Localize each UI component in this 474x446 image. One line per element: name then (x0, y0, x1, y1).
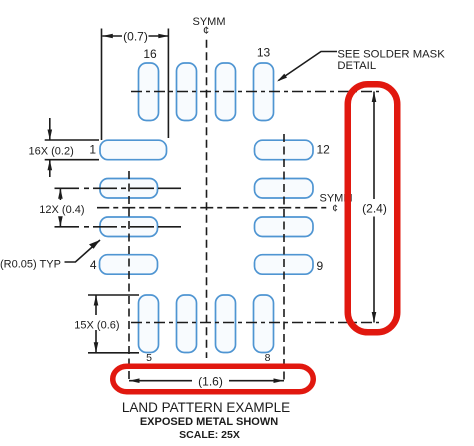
svg-text:(1.6): (1.6) (198, 375, 223, 389)
pad 13 (254, 63, 274, 121)
svg-text:DETAIL: DETAIL (337, 60, 376, 72)
arrowhead 12X(0.4) down (58, 216, 63, 227)
arrowhead solder mask leader (277, 74, 287, 82)
svg-text:SEE SOLDER MASK: SEE SOLDER MASK (337, 49, 445, 61)
arrowhead (1.6) left (129, 378, 140, 383)
pad 5 (139, 295, 159, 353)
arrowhead (2.4) down (372, 312, 377, 323)
svg-text:SCALE: 25X: SCALE: 25X (179, 429, 240, 441)
centerline pad 3 row (55, 226, 182, 228)
pad 7 (216, 295, 236, 353)
arrowhead 12X(0.4) up (58, 188, 63, 199)
svg-text:EXPOSED METAL SHOWN: EXPOSED METAL SHOWN (140, 416, 278, 428)
arrowhead (0.7) right (158, 34, 169, 39)
svg-text:8: 8 (265, 352, 271, 364)
svg-text:(R0.05) TYP: (R0.05) TYP (0, 259, 61, 271)
svg-text:(2.4): (2.4) (362, 202, 387, 216)
svg-text:5: 5 (146, 352, 152, 364)
red highlight oval vertical (2.4) (348, 84, 398, 332)
arrowhead 15X(0.6) down (94, 342, 99, 353)
arrowhead (2.4) up (372, 92, 377, 103)
pad 2 (100, 179, 158, 199)
arrowhead (1.6) right (274, 378, 285, 383)
svg-text:¢: ¢ (332, 204, 338, 215)
pad 9 (255, 255, 314, 275)
dim 15X(0.6) line upper (95, 295, 97, 315)
pad 4 (100, 255, 158, 275)
dim (1.6) line right (229, 380, 284, 382)
svg-text:16X (0.2): 16X (0.2) (29, 145, 74, 157)
pad 3 (100, 217, 158, 237)
pad 10 (255, 217, 314, 237)
dim (2.4) line upper (373, 92, 375, 200)
pad 12 (255, 140, 314, 160)
leader to solder mask note (279, 52, 338, 81)
pad 15 (177, 63, 197, 121)
svg-text:12: 12 (317, 142, 331, 156)
red highlight oval horizontal (1.6) (113, 366, 314, 392)
pad 8 (254, 295, 274, 353)
pad 6 (177, 295, 197, 353)
dim 16X(0.2) extension top (45, 139, 99, 141)
centerline bottom pad row (131, 322, 379, 324)
svg-text:15X (0.6): 15X (0.6) (74, 320, 119, 332)
dim 15X(0.6) line lower (95, 330, 97, 353)
arrowhead (0.7) left (102, 34, 113, 39)
pad 11 (255, 179, 314, 199)
svg-text:4: 4 (90, 258, 97, 272)
svg-text:¢: ¢ (203, 25, 209, 37)
svg-text:12X (0.4): 12X (0.4) (39, 204, 84, 216)
arrowhead 15X(0.6) up (94, 295, 99, 306)
pad 1 (elongated) (100, 140, 167, 160)
dim 16X(0.2) extension bottom (45, 159, 99, 161)
svg-text:13: 13 (257, 46, 271, 60)
dim (0.7) line (102, 35, 122, 37)
svg-text:9: 9 (317, 259, 324, 273)
dim (0.7) extension line right (167, 29, 169, 139)
dim (2.4) line lower (373, 217, 375, 323)
dim (0.7) extension line left (101, 29, 103, 141)
pad 16 (139, 63, 159, 121)
dim 15X(0.6) extension bottom (88, 352, 139, 354)
centerline top pad row (131, 91, 379, 93)
arrowhead 16X(0.2) up (48, 160, 53, 171)
vertical SYMM centerline (206, 36, 208, 359)
left pad column centerline (128, 171, 130, 383)
svg-text:LAND PATTERN EXAMPLE: LAND PATTERN EXAMPLE (122, 400, 290, 415)
svg-text:16: 16 (143, 47, 157, 61)
dim 16X(0.2) line below (49, 160, 51, 177)
pad 14 (216, 63, 236, 121)
dim (1.6) line left (129, 380, 192, 382)
arrowhead (R0.05) leader (89, 240, 100, 249)
svg-text:(0.7): (0.7) (123, 30, 148, 44)
dim 12X(0.4) line lower (59, 218, 61, 227)
centerline pad 2 row (55, 187, 182, 189)
svg-text:1: 1 (89, 143, 96, 157)
leader for (R0.05) TYP (65, 240, 101, 262)
arrowhead 16X(0.2) down (48, 130, 53, 141)
horizontal SYMM centerline (97, 207, 329, 209)
dim 16X(0.2) line above (49, 118, 51, 140)
dim 15X(0.6) extension top (88, 294, 139, 296)
right pad column centerline (283, 134, 285, 383)
dim 12X(0.4) line upper (59, 188, 61, 200)
